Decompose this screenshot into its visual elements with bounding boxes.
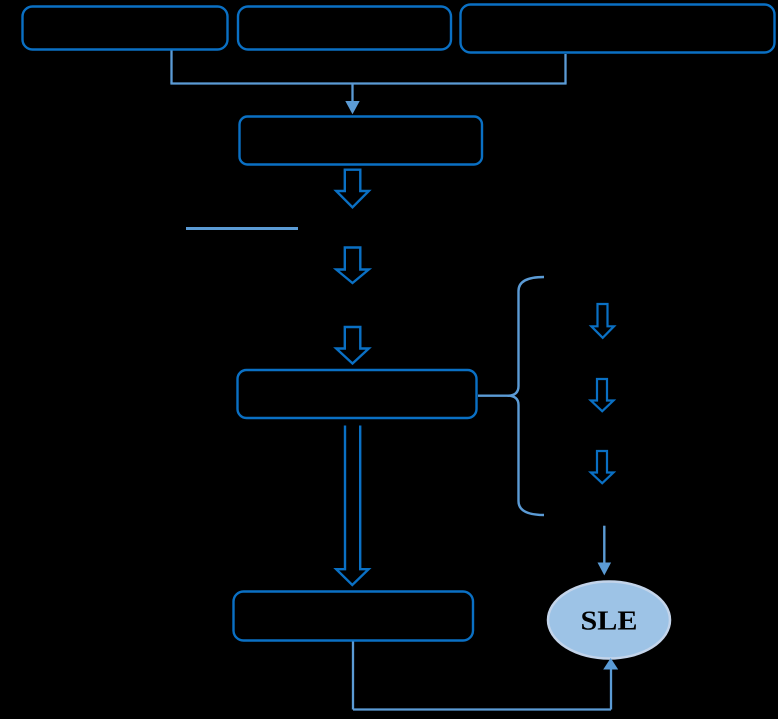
svg-text:SLE: SLE xyxy=(581,606,638,636)
wire horizontal merge xyxy=(170,82,566,84)
wire box6 down xyxy=(352,642,354,710)
ellipse SLE xyxy=(548,582,670,659)
wire from box top-left down xyxy=(170,51,172,84)
underline segment xyxy=(186,227,298,230)
block arrow 1 xyxy=(336,170,369,208)
box 5 xyxy=(238,370,477,418)
block arrow 2 xyxy=(336,248,369,284)
box 4 xyxy=(240,117,483,165)
box top-left xyxy=(23,7,228,50)
wire brace to ellipse xyxy=(603,526,605,563)
curly brace xyxy=(508,277,545,515)
small block arrow C xyxy=(591,451,614,483)
box 6 xyxy=(234,592,474,641)
box top-middle xyxy=(238,7,451,50)
wire drop to box 4 xyxy=(351,84,353,102)
wire up to ellipse xyxy=(610,669,612,710)
block arrow 3 xyxy=(336,327,369,364)
wire box 5 to brace xyxy=(478,395,509,397)
wire bottom horizontal xyxy=(353,708,611,710)
wire from box top-right down xyxy=(564,54,566,84)
box top-right xyxy=(461,5,775,53)
long block arrow box5 to box6 xyxy=(336,426,368,586)
small block arrow B xyxy=(591,379,614,411)
arrowhead into ellipse top xyxy=(598,563,612,576)
arrowhead into ellipse bottom xyxy=(603,658,618,670)
small block arrow A xyxy=(591,304,614,338)
arrowhead into box 4 xyxy=(345,101,359,114)
